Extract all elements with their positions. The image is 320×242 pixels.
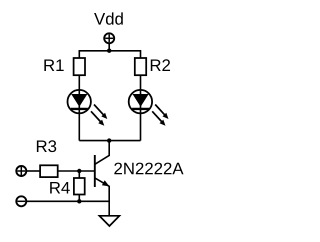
wire R2 to LED2 and down to rail [140,75,142,140]
node junction top [107,49,111,53]
transistor Q1 2N2222A [95,141,110,216]
wire cathode rail [79,140,140,142]
wire Vdd terminal to top rail [108,44,110,51]
resistor R4 [74,178,85,195]
net label Vdd [94,12,123,24]
wire top rail down to R1 [78,50,80,59]
input terminal minus [16,196,26,206]
label R4 [50,182,70,194]
resistor R3 [40,165,58,177]
wire top rail [79,50,140,52]
resistor R2 [135,58,146,75]
power terminal Vdd (circle with plus) [104,33,114,43]
wire plus terminal to R3 [27,170,41,172]
wire R1 to LED1 and down to rail [78,75,80,140]
label R1 [44,59,63,71]
wire top rail down to R2 [140,50,142,59]
LED D1 [68,90,108,126]
label R2 [151,59,170,71]
node junction collector [107,138,111,142]
wire bottom rail [27,200,109,202]
wire base junction to R4 [78,171,80,179]
ground [99,216,119,226]
input terminal plus [16,166,26,176]
wire R4 to bottom rail [78,194,80,201]
label 2N2222A [114,163,183,175]
label R3 [37,140,56,152]
resistor R1 [74,58,85,75]
LED D2 [129,90,169,126]
wire base [58,170,95,172]
node junction base/R4 [77,169,81,173]
node junction R4/bottom rail [77,199,81,203]
